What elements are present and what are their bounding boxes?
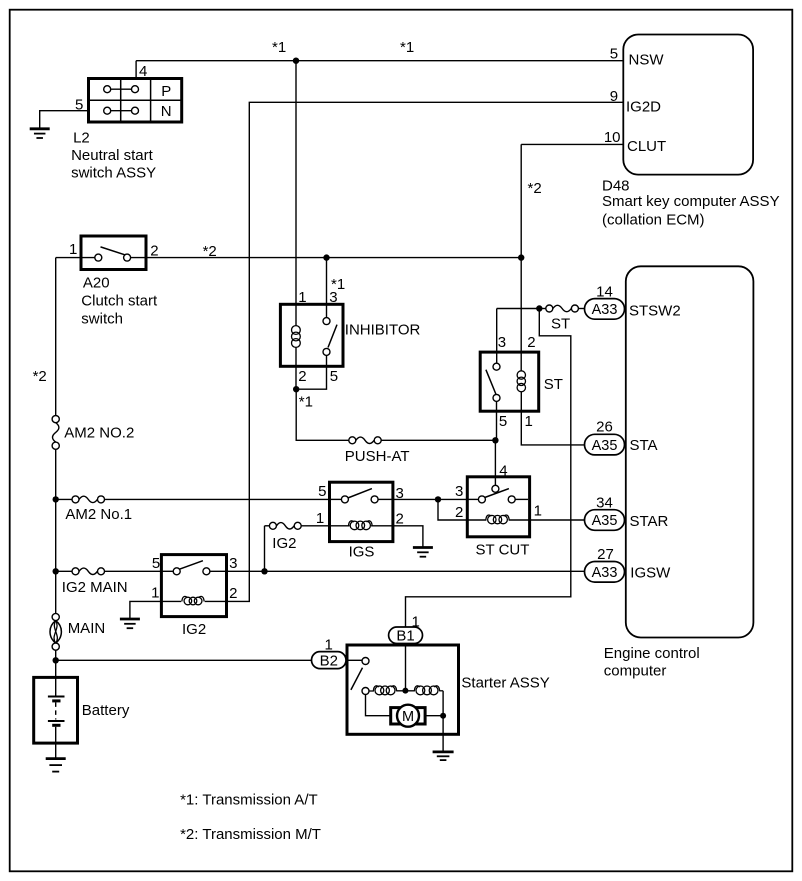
fusible link MAIN braid bbox=[50, 613, 61, 650]
wire IG2 MAIN fuse to IG2 relay pin5 bbox=[105, 570, 162, 572]
L2 contact row N bbox=[104, 107, 139, 114]
wire motor right to ground riser bbox=[425, 715, 443, 717]
connector oval A35 STAR bbox=[585, 510, 625, 531]
node junction inhibitor pin2/pin5 bbox=[293, 386, 299, 392]
svg-text:switch: switch bbox=[81, 310, 123, 327]
inhibitor switch contact circles bbox=[323, 318, 330, 356]
coil ST CUT bbox=[486, 515, 509, 524]
wire ST CUT pin4 riser bbox=[494, 440, 496, 485]
wire IGS pin2 to ground bbox=[393, 526, 423, 547]
wire L2 pin4 riser to NSW net bbox=[135, 61, 137, 79]
svg-text:1: 1 bbox=[69, 241, 77, 258]
relay INHIBITOR box bbox=[280, 304, 343, 366]
connector oval B2 bbox=[312, 652, 347, 670]
svg-text:1: 1 bbox=[316, 510, 324, 527]
wire ST CUT pin1 to A35 STAR bbox=[530, 519, 585, 521]
wire lead to ST fuse bbox=[539, 308, 546, 310]
connector D48 smart key computer ASSY box bbox=[623, 35, 753, 175]
A20 switch blade bbox=[101, 247, 127, 255]
IG2 switch contact circles and leads bbox=[161, 568, 226, 575]
L2 inner grid lines bbox=[89, 79, 182, 123]
wire B2 into starter switch bbox=[346, 659, 362, 661]
svg-text:3: 3 bbox=[455, 483, 463, 500]
motor M starter bbox=[391, 705, 425, 727]
ST relay coil bbox=[517, 371, 525, 392]
wire IG2D net (IG2 relay pin2 to D48 pin9) bbox=[227, 102, 624, 601]
wire battery bus from A20 corner down to battery bbox=[55, 258, 57, 696]
wire PUSH-AT fuse to ST CUT pin4 junction bbox=[381, 439, 495, 441]
svg-text:*2: *2 bbox=[528, 180, 542, 197]
svg-text:L2: L2 bbox=[73, 130, 90, 147]
node junction bus / AM2 No.1 bbox=[53, 496, 59, 502]
svg-text:10: 10 bbox=[604, 129, 621, 146]
svg-text:ST CUT: ST CUT bbox=[476, 542, 530, 559]
svg-text:ST: ST bbox=[551, 316, 570, 333]
fuse PUSH-AT bbox=[349, 437, 381, 444]
wire AM2 No.1 fuse to IGS relay pin5 bbox=[105, 498, 330, 500]
node junction bus / IG2 MAIN bbox=[53, 568, 59, 574]
wire NSW net (L2 pin4 to D48 pin5) bbox=[136, 60, 623, 62]
switch A20 clutch start switch box bbox=[81, 236, 146, 270]
wire A20 pin2 to CLUT riser bbox=[131, 257, 522, 259]
svg-text:STA: STA bbox=[630, 437, 658, 454]
wire L2 pin5 to ground bbox=[40, 111, 89, 128]
relay ST box bbox=[480, 352, 539, 411]
svg-text:switch ASSY: switch ASSY bbox=[71, 164, 156, 181]
coil starter pull-in bbox=[373, 686, 396, 695]
connector engine control computer box bbox=[626, 266, 754, 637]
IGS switch contact circles and leads bbox=[330, 496, 393, 503]
svg-text:*2: *2 bbox=[33, 368, 47, 385]
svg-text:1: 1 bbox=[151, 585, 159, 602]
node junction bus / starter B2 wire bbox=[53, 657, 59, 663]
node junction NSW / inhibitor pin1 bbox=[293, 58, 299, 64]
svg-text:5: 5 bbox=[610, 45, 618, 62]
svg-text:IG2: IG2 bbox=[182, 621, 206, 638]
ground at IGS bbox=[413, 548, 433, 557]
svg-text:AM2 No.1: AM2 No.1 bbox=[65, 506, 132, 523]
coil starter hold-in bbox=[414, 686, 439, 695]
wire A20 pin1 lead bbox=[56, 257, 95, 259]
svg-text:2: 2 bbox=[298, 368, 306, 385]
wire battery bus to starter B2 bbox=[56, 659, 312, 661]
fuse AM2 No.1 bbox=[72, 496, 105, 503]
svg-text:A35: A35 bbox=[592, 513, 618, 529]
svg-text:(collation ECM): (collation ECM) bbox=[602, 212, 705, 229]
svg-text:A20: A20 bbox=[83, 275, 110, 292]
svg-text:NSW: NSW bbox=[629, 52, 665, 69]
wire starter switch to motor left bbox=[366, 695, 391, 716]
svg-text:1: 1 bbox=[325, 637, 333, 654]
fuse IG2 bbox=[269, 522, 301, 529]
svg-text:A33: A33 bbox=[592, 302, 618, 318]
fuse IG2 MAIN bbox=[72, 568, 105, 575]
node junction A20 wire / CLUT riser bbox=[518, 254, 524, 260]
node junction PUSH-AT / ST relay pin5 / ST CUT pin4 bbox=[492, 437, 498, 443]
svg-text:3: 3 bbox=[229, 555, 237, 572]
svg-text:IG2: IG2 bbox=[272, 535, 296, 552]
IGS coil row leads bbox=[330, 525, 393, 527]
ST switch blade bbox=[486, 370, 496, 394]
wire branch down to ST CUT pin2 bbox=[438, 499, 467, 520]
wire STSW2 row left segment to ST relay pin3 bbox=[497, 308, 540, 310]
svg-text:2: 2 bbox=[150, 243, 158, 260]
wire IGSW net from IG2 relay pin3 to A33 IGSW bbox=[227, 570, 585, 572]
battery cell symbol bbox=[48, 697, 65, 744]
svg-text:Starter ASSY: Starter ASSY bbox=[461, 675, 549, 692]
wire starter coil right down to motor row bbox=[442, 691, 444, 716]
wire CLUT riser down to ST relay coil bbox=[520, 144, 522, 370]
starter switch blade bbox=[351, 668, 363, 690]
coil IGS bbox=[348, 521, 372, 530]
wire inhibitor pin1 riser from NSW bbox=[295, 61, 297, 326]
svg-text:1: 1 bbox=[298, 289, 306, 306]
svg-text:IGS: IGS bbox=[349, 544, 375, 561]
ground at IG2 relay bbox=[120, 619, 140, 628]
battery box bbox=[34, 677, 78, 743]
ST switch contact circles bbox=[493, 363, 500, 401]
wire IGS pin3 to ST CUT pin3 bbox=[393, 498, 467, 500]
svg-text:D48: D48 bbox=[602, 178, 630, 195]
ground at L2 bbox=[30, 129, 50, 138]
connector oval A33 IGSW bbox=[585, 562, 625, 583]
IG2 coil row leads bbox=[161, 600, 226, 602]
wire ST relay pin3 riser bbox=[496, 309, 498, 364]
svg-text:CLUT: CLUT bbox=[627, 138, 666, 155]
coil IG2 relay bbox=[182, 596, 204, 604]
svg-text:INHIBITOR: INHIBITOR bbox=[345, 321, 421, 338]
svg-text:ST: ST bbox=[544, 376, 563, 393]
wire STSW2 junction down over to B1 riser bbox=[406, 309, 571, 628]
svg-text:Neutral start: Neutral start bbox=[71, 147, 154, 164]
wire starter ground riser bbox=[442, 716, 444, 751]
svg-text:*1: *1 bbox=[272, 39, 286, 56]
starter switch contact circles bbox=[362, 658, 369, 695]
svg-text:2: 2 bbox=[527, 334, 535, 351]
starter ASSY box bbox=[347, 645, 459, 734]
svg-text:A35: A35 bbox=[592, 438, 618, 454]
svg-text:N: N bbox=[161, 103, 172, 120]
svg-text:Clutch start: Clutch start bbox=[81, 292, 158, 309]
wire IG2 fuse riser down to IGSW wire bbox=[264, 526, 266, 572]
relay ST CUT box bbox=[467, 477, 529, 537]
wire ST fuse to A33 oval bbox=[578, 308, 584, 310]
svg-text:IG2 MAIN: IG2 MAIN bbox=[62, 579, 128, 596]
node junction IGSW wire / IG2 fuse riser bbox=[261, 568, 267, 574]
svg-text:*2: Transmission M/T: *2: Transmission M/T bbox=[180, 826, 321, 843]
node junction starter coils / B1 bbox=[402, 688, 408, 694]
svg-text:*1: Transmission A/T: *1: Transmission A/T bbox=[180, 791, 318, 808]
svg-text:26: 26 bbox=[596, 419, 613, 436]
svg-text:Engine control: Engine control bbox=[604, 645, 700, 662]
svg-text:A33: A33 bbox=[592, 565, 618, 581]
svg-text:5: 5 bbox=[318, 483, 326, 500]
wire inhibitor pin5 down and left to pin2 junction bbox=[296, 355, 327, 389]
svg-text:B2: B2 bbox=[320, 652, 338, 669]
svg-text:STSW2: STSW2 bbox=[629, 303, 681, 320]
svg-text:9: 9 bbox=[610, 88, 618, 105]
node junction motor / ground riser bbox=[440, 713, 446, 719]
wire IG2 fuse to IGS pin1 bbox=[265, 525, 270, 527]
fuse ST bbox=[546, 305, 579, 312]
ST CUT switch contact circles and leads bbox=[467, 485, 528, 503]
svg-text:*1: *1 bbox=[299, 394, 313, 411]
svg-text:1: 1 bbox=[534, 503, 542, 520]
relay IG2 box bbox=[161, 555, 226, 617]
svg-text:2: 2 bbox=[455, 504, 463, 521]
wire ST relay pin5 down to PUSH-AT junction bbox=[496, 401, 498, 440]
node junction A20 wire / inhibitor pin3 bbox=[323, 254, 329, 260]
svg-text:34: 34 bbox=[596, 494, 613, 511]
relay IGS box bbox=[330, 482, 393, 541]
svg-text:1: 1 bbox=[412, 614, 420, 631]
svg-text:IGSW: IGSW bbox=[630, 564, 671, 581]
IG2 switch blade bbox=[179, 561, 203, 570]
svg-text:*1: *1 bbox=[400, 39, 414, 56]
svg-text:AM2 NO.2: AM2 NO.2 bbox=[64, 425, 134, 442]
inhibitor coil bbox=[292, 326, 301, 348]
svg-text:PUSH-AT: PUSH-AT bbox=[345, 448, 410, 465]
switch L2 neutral start switch box bbox=[89, 79, 182, 123]
ground at starter bbox=[433, 752, 454, 760]
svg-text:Battery: Battery bbox=[82, 702, 130, 719]
svg-text:*2: *2 bbox=[203, 243, 217, 260]
svg-text:MAIN: MAIN bbox=[68, 620, 106, 637]
svg-text:5: 5 bbox=[330, 368, 338, 385]
L2 contact row P bbox=[104, 86, 139, 93]
svg-text:27: 27 bbox=[597, 546, 614, 563]
wire inhibitor pin3 riser from A20 wire bbox=[326, 258, 328, 318]
svg-text:computer: computer bbox=[604, 663, 667, 680]
svg-text:*1: *1 bbox=[331, 276, 345, 293]
svg-text:14: 14 bbox=[596, 284, 613, 301]
svg-text:M: M bbox=[402, 709, 414, 725]
connector oval A35 STA bbox=[585, 434, 625, 455]
connector oval B1 bbox=[389, 627, 423, 644]
wire inhibitor coil bottom to junction bbox=[295, 347, 297, 389]
svg-text:IG2D: IG2D bbox=[626, 99, 661, 116]
node junction STSW2 branch bbox=[536, 305, 542, 311]
svg-text:2: 2 bbox=[229, 585, 237, 602]
ground at battery bbox=[46, 759, 66, 772]
wire bus to AM2 No.1 fuse bbox=[56, 498, 72, 500]
wire IG2 fuse right lead bbox=[301, 525, 329, 527]
inhibitor switch blade bbox=[328, 325, 337, 348]
wire starter coil row bbox=[369, 690, 443, 692]
node junction IGS pin3 wire / ST CUT pin2 branch bbox=[435, 496, 441, 502]
wire inhibitor junction down to PUSH-AT row bbox=[296, 389, 349, 440]
fusible link AM2 NO.2 bbox=[52, 416, 59, 450]
svg-text:5: 5 bbox=[152, 555, 160, 572]
wire bus to IG2 MAIN fuse bbox=[56, 570, 72, 572]
wire IG2 relay pin1 to ground bbox=[130, 601, 162, 618]
wire B1 down to coil junction bbox=[405, 644, 407, 691]
ST CUT coil row leads bbox=[467, 519, 529, 521]
connector oval A33 STSW2 bbox=[585, 299, 625, 320]
wire CLUT net horizontal bbox=[521, 143, 623, 145]
svg-text:5: 5 bbox=[499, 413, 507, 430]
svg-text:1: 1 bbox=[525, 413, 533, 430]
A20 contact circles bbox=[95, 254, 131, 261]
svg-text:4: 4 bbox=[499, 463, 507, 480]
wire ST relay pin1 down and right to A35 STA bbox=[521, 392, 584, 445]
svg-text:STAR: STAR bbox=[630, 513, 669, 530]
svg-text:P: P bbox=[161, 83, 171, 100]
wire battery negative to ground bbox=[55, 743, 57, 757]
svg-text:Smart key computer ASSY: Smart key computer ASSY bbox=[602, 193, 780, 210]
ST CUT switch blade bbox=[485, 489, 509, 498]
svg-text:3: 3 bbox=[498, 334, 506, 351]
IGS switch blade bbox=[348, 489, 372, 498]
